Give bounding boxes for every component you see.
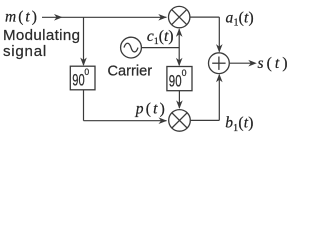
wire: corner down into summer xyxy=(218,17,220,51)
90-degree box 1 xyxy=(70,66,95,90)
arrowhead on s(t) output xyxy=(248,60,256,67)
wire: top multiplier output to corner xyxy=(190,16,219,18)
svg-text:90: 90 xyxy=(72,71,84,90)
wire: box1 output down xyxy=(83,90,85,121)
svg-text:s(t): s(t) xyxy=(258,55,290,72)
arrowhead into summer bottom xyxy=(216,74,223,83)
90-degree box 2 xyxy=(167,67,192,91)
svg-text:a1(t): a1(t) xyxy=(226,9,254,28)
wire: bottom multiplier output to corner xyxy=(191,119,220,121)
wire: m(t) input horizontal to top multiplier xyxy=(42,16,167,18)
arrowhead up into top multiplier bottom xyxy=(176,28,183,37)
arrowhead into summer top xyxy=(216,44,223,53)
svg-text:0: 0 xyxy=(84,67,89,78)
svg-text:90: 90 xyxy=(169,72,182,91)
svg-text:Modulating: Modulating xyxy=(3,27,80,44)
svg-text:Carrier: Carrier xyxy=(108,63,153,79)
svg-text:b1(t): b1(t) xyxy=(225,115,253,134)
arrowhead on m(t) wire xyxy=(54,14,63,21)
wire: bottom horizontal p(t) to bottom multiplier xyxy=(84,120,167,122)
svg-text:p(t): p(t) xyxy=(135,101,167,118)
svg-text:0: 0 xyxy=(182,68,187,79)
wire: oscillator to carrier line xyxy=(142,47,180,49)
arrowhead into box1 top xyxy=(80,58,87,67)
arrowhead into top multiplier xyxy=(158,14,167,21)
summer (plus in circle) xyxy=(209,53,230,74)
wire: box2 output down to bottom multiplier xyxy=(178,91,180,108)
wire: summer output s(t) xyxy=(230,62,255,64)
arrowhead down into box2 top xyxy=(176,58,183,67)
multiplier bottom (X in circle) xyxy=(169,110,191,132)
multiplier top (X in circle) xyxy=(169,6,190,27)
carrier oscillator (sine in circle) xyxy=(121,37,142,58)
svg-text:m(t): m(t) xyxy=(5,9,39,26)
wire: drop from junction to 90-box 1 xyxy=(83,17,85,65)
arrowhead into bottom multiplier top xyxy=(176,100,183,109)
wire: carrier vertical line between top multiplier and box2 xyxy=(178,29,180,65)
svg-text:signal: signal xyxy=(3,43,47,60)
wire: corner up into summer xyxy=(218,75,220,120)
arrowhead into bottom multiplier left xyxy=(159,117,168,124)
svg-text:c1(t): c1(t) xyxy=(147,28,174,47)
